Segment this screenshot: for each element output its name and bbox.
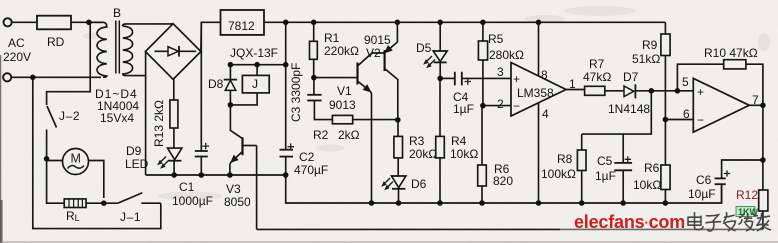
C4 plus bbox=[465, 78, 471, 84]
svg-text:V1: V1 bbox=[337, 84, 352, 98]
svg-text:R2: R2 bbox=[313, 128, 329, 142]
svg-text:D7: D7 bbox=[623, 70, 639, 84]
diode D7 bbox=[624, 84, 693, 98]
svg-text:RD: RD bbox=[47, 35, 65, 49]
wire bbox=[47, 159, 65, 203]
wire pin2 bbox=[483, 105, 511, 107]
svg-text:C3 3300pF: C3 3300pF bbox=[289, 63, 303, 122]
node rail R8 bbox=[579, 200, 585, 206]
LED arrows D9 bbox=[159, 157, 170, 168]
node relay top C2 bbox=[283, 62, 289, 68]
wire peak node down bbox=[582, 91, 652, 134]
node R1 C3 bbox=[311, 75, 317, 81]
svg-text:47kΩ: 47kΩ bbox=[583, 70, 611, 84]
transformer core bbox=[116, 21, 120, 74]
node motor-RL bbox=[101, 200, 107, 206]
transistor V1 9013 bbox=[358, 53, 385, 203]
transistor V3 8050 bbox=[230, 137, 257, 175]
node rail C1 bbox=[199, 172, 205, 178]
wire pin6 bbox=[665, 119, 693, 121]
svg-text:470µF: 470µF bbox=[294, 163, 328, 177]
watermark chinese 电子发烧友 bbox=[688, 213, 771, 231]
LED D5 bbox=[433, 22, 447, 78]
C6 plus bbox=[724, 170, 730, 176]
node rail R6a bbox=[479, 200, 485, 206]
svg-text:D5: D5 bbox=[416, 41, 432, 55]
node J2-motor bbox=[44, 156, 50, 162]
node C6 tap bbox=[760, 157, 766, 163]
capacitor C6 bbox=[715, 160, 763, 203]
wire output down bbox=[762, 105, 764, 190]
svg-text:1µF: 1µF bbox=[595, 169, 616, 183]
wire bbox=[11, 21, 37, 23]
svg-text:51kΩ: 51kΩ bbox=[632, 52, 660, 66]
svg-text:7: 7 bbox=[752, 93, 759, 107]
wire bridge minus down to rail bbox=[145, 52, 147, 175]
op-amp U1 LM358 bbox=[511, 22, 585, 203]
svg-text:10µF: 10µF bbox=[688, 187, 716, 201]
svg-text:1N4148: 1N4148 bbox=[608, 102, 650, 116]
svg-text:V2: V2 bbox=[366, 46, 381, 60]
wire bbox=[141, 202, 161, 204]
regulator U2 7812 bbox=[221, 10, 265, 35]
svg-text:R5: R5 bbox=[488, 32, 504, 46]
C5 plus bbox=[625, 156, 631, 162]
svg-text:R13 2kΩ: R13 2kΩ bbox=[152, 100, 166, 147]
resistor R1 bbox=[310, 22, 318, 77]
svg-text:20kΩ: 20kΩ bbox=[409, 147, 437, 161]
resistor R9 bbox=[661, 34, 670, 120]
node rail relay bbox=[283, 20, 289, 26]
resistor R13 bbox=[170, 79, 178, 148]
svg-text:LED: LED bbox=[125, 157, 149, 171]
LED D6 bbox=[392, 176, 406, 203]
svg-text:4: 4 bbox=[542, 107, 549, 121]
svg-text:D9: D9 bbox=[126, 144, 142, 158]
node rail R5 bbox=[480, 20, 486, 26]
svg-text:8050: 8050 bbox=[224, 195, 251, 209]
svg-text:M: M bbox=[71, 152, 81, 166]
node relay bottom D8 bbox=[228, 102, 234, 108]
motor M bbox=[63, 149, 89, 175]
motor symbol bbox=[68, 152, 85, 169]
svg-text:AC: AC bbox=[8, 36, 25, 50]
scan smudges bbox=[83, 6, 770, 201]
svg-text:2kΩ: 2kΩ bbox=[338, 128, 360, 142]
wire V3 base to bottom line bbox=[256, 146, 258, 230]
wire ground rail left bbox=[146, 175, 722, 203]
node rail C2b bbox=[283, 172, 289, 178]
relay coil J bbox=[242, 65, 269, 93]
transistor V2 9015 bbox=[385, 22, 398, 120]
AC terminal lower bbox=[3, 73, 11, 81]
bridge rectifier D1-D4 bbox=[145, 24, 201, 80]
svg-text:1: 1 bbox=[569, 77, 576, 91]
node opamp2 out bbox=[760, 103, 766, 109]
node rail R6b bbox=[663, 200, 669, 206]
wire secondary top to bridge bbox=[123, 24, 174, 26]
wire bottom frame bbox=[257, 228, 560, 230]
node rail V3 bbox=[227, 172, 233, 178]
svg-text:7812: 7812 bbox=[228, 19, 255, 33]
svg-text:JQX-13F: JQX-13F bbox=[230, 46, 278, 60]
svg-text:C6: C6 bbox=[696, 173, 712, 187]
svg-text:+: + bbox=[697, 85, 704, 99]
node relay top D8 bbox=[228, 62, 234, 68]
svg-text:J–1: J–1 bbox=[120, 210, 141, 224]
switch J-2 bbox=[47, 106, 57, 128]
wire +12V rail bbox=[264, 21, 665, 23]
watermark stamp 1KW bbox=[736, 207, 759, 218]
svg-text:1000µF: 1000µF bbox=[172, 194, 213, 208]
svg-text:9013: 9013 bbox=[329, 98, 356, 112]
svg-text:10kΩ: 10kΩ bbox=[450, 147, 478, 161]
svg-text:V3: V3 bbox=[226, 182, 241, 196]
svg-text:R1: R1 bbox=[324, 31, 340, 45]
wire rail to R9 bbox=[664, 22, 666, 34]
svg-text:1µF: 1µF bbox=[453, 102, 474, 116]
transformer B secondary bbox=[123, 26, 146, 76]
svg-text:R7: R7 bbox=[589, 57, 605, 71]
svg-text:J: J bbox=[252, 77, 258, 91]
node rail pin8 bbox=[536, 20, 542, 26]
svg-text:B: B bbox=[113, 6, 121, 20]
svg-text:elecfans·com: elecfans·com bbox=[574, 212, 685, 232]
node R10 pin5 bbox=[675, 88, 681, 94]
switch J-1 bbox=[118, 193, 143, 204]
svg-text:D6: D6 bbox=[411, 177, 427, 191]
svg-text:9015: 9015 bbox=[364, 33, 391, 47]
resistor R8 bbox=[577, 134, 586, 203]
node R5 pin2 bbox=[480, 103, 486, 109]
wire motor-loop left bbox=[33, 77, 161, 228]
capacitor C5 bbox=[614, 134, 632, 203]
svg-text:R10 47kΩ: R10 47kΩ bbox=[704, 46, 758, 60]
C1 plus bbox=[203, 143, 210, 150]
resistor R5 bbox=[478, 22, 487, 105]
svg-text:R3: R3 bbox=[409, 134, 425, 148]
svg-text:280kΩ: 280kΩ bbox=[489, 48, 524, 62]
node rail V1e bbox=[369, 200, 375, 206]
paper noise bbox=[0, 0, 1, 1]
resistor RD bbox=[37, 16, 71, 30]
plus signs bbox=[203, 78, 731, 176]
AC terminal upper bbox=[4, 18, 12, 26]
LED arrows D5 bbox=[425, 56, 436, 67]
svg-text:15Vx4: 15Vx4 bbox=[100, 111, 134, 125]
LED D9 bbox=[168, 148, 182, 175]
resistor R3 bbox=[394, 120, 403, 176]
wire relay branch bbox=[285, 22, 287, 149]
resistor R12 bbox=[759, 190, 768, 229]
LED arrows D6 bbox=[383, 178, 394, 189]
capacitor C4 bbox=[440, 72, 511, 86]
node rail D6 bbox=[396, 200, 402, 206]
svg-text:R6: R6 bbox=[644, 161, 660, 175]
svg-text:2: 2 bbox=[497, 97, 504, 111]
capacitor C1 bbox=[195, 22, 208, 175]
capacitor C3 bbox=[307, 78, 332, 120]
wire neutral bbox=[11, 76, 101, 78]
svg-text:LM358: LM358 bbox=[517, 86, 554, 100]
resistor R4 bbox=[436, 78, 445, 203]
node rail C5 bbox=[620, 200, 626, 206]
svg-text:C2: C2 bbox=[299, 150, 315, 164]
svg-text:10kΩ: 10kΩ bbox=[633, 178, 661, 192]
wire R1/C3 to V1 base bbox=[314, 77, 357, 79]
wire bbox=[88, 161, 104, 199]
svg-text:−: − bbox=[513, 99, 520, 113]
op-amp U1B bbox=[693, 78, 763, 132]
node relay top J bbox=[254, 62, 260, 68]
wire bbox=[71, 21, 102, 23]
svg-text:R8: R8 bbox=[557, 152, 573, 166]
resistor R6a 820 bbox=[478, 106, 487, 203]
wire bottom frame right bbox=[560, 228, 763, 230]
svg-text:100kΩ: 100kΩ bbox=[541, 167, 576, 181]
node rail R4 bbox=[437, 200, 443, 206]
resistor R6b 10k bbox=[661, 120, 670, 204]
wire J-2 branch bbox=[47, 22, 91, 105]
node rail D5 bbox=[437, 20, 443, 26]
svg-text:J–2: J–2 bbox=[59, 109, 80, 123]
svg-text:R12: R12 bbox=[736, 188, 758, 202]
node D7 out bbox=[649, 88, 655, 94]
resistor RL bbox=[64, 199, 86, 208]
resistor R2 bbox=[332, 115, 397, 123]
node rail R1 bbox=[311, 20, 317, 26]
svg-text:6: 6 bbox=[683, 107, 690, 121]
wire relay bottom bbox=[230, 65, 257, 139]
node rail D9 bbox=[171, 172, 177, 178]
svg-text:C1: C1 bbox=[179, 180, 195, 194]
resistor R7 bbox=[585, 86, 624, 95]
svg-text:820: 820 bbox=[493, 174, 513, 188]
svg-text:R9: R9 bbox=[642, 38, 658, 52]
diode D8 bbox=[224, 80, 237, 91]
wire relay top bbox=[230, 64, 286, 66]
capacitor C2 bbox=[280, 150, 294, 175]
svg-text:220V: 220V bbox=[3, 50, 31, 64]
svg-text:+: + bbox=[513, 72, 520, 86]
wire bridge plus to 7812 bbox=[201, 22, 221, 51]
resistor R10 bbox=[677, 60, 763, 106]
svg-text:220kΩ: 220kΩ bbox=[324, 44, 359, 58]
wire bbox=[86, 202, 118, 204]
svg-text:8: 8 bbox=[541, 68, 548, 82]
svg-text:D8: D8 bbox=[208, 77, 224, 91]
svg-text:R4: R4 bbox=[451, 134, 467, 148]
svg-text:C5: C5 bbox=[597, 154, 613, 168]
node R2 R3 bbox=[395, 117, 401, 123]
C2 plus bbox=[288, 143, 295, 150]
wire bbox=[47, 160, 63, 162]
scan edge artifact bbox=[0, 55, 2, 243]
svg-text:5: 5 bbox=[682, 75, 689, 89]
node rail pin4 bbox=[536, 200, 542, 206]
transformer B primary bbox=[90, 22, 107, 77]
node RD-junction bbox=[86, 20, 92, 26]
wire bbox=[46, 130, 48, 159]
node D5 C4 bbox=[437, 76, 443, 82]
node rail V2 bbox=[395, 20, 401, 26]
svg-text:−: − bbox=[697, 113, 704, 127]
node R9 pin6 bbox=[663, 117, 669, 123]
svg-text:3: 3 bbox=[497, 65, 504, 79]
node AC neutral bbox=[30, 75, 36, 81]
